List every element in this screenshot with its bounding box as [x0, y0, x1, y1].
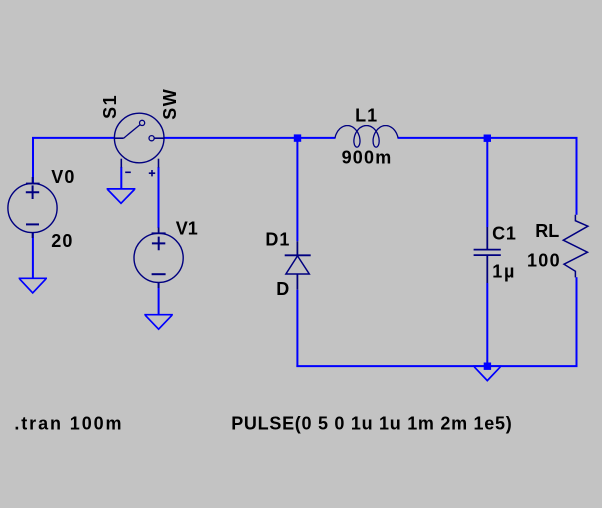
voltage source V1	[134, 228, 183, 289]
diode D1	[285, 241, 311, 289]
svg-text:1µ: 1µ	[492, 262, 516, 282]
wire diode branch vertical upper	[296, 137, 298, 241]
wire switch right to node A	[165, 137, 336, 139]
wire inductor right to top-right corner	[398, 137, 578, 139]
ground at bottom rail	[473, 366, 501, 381]
wire capacitor branch upper	[486, 137, 488, 227]
wire resistor RL bottom to bottom rail	[576, 277, 578, 367]
wire right side down to resistor RL	[576, 137, 578, 215]
svg-text:V1: V1	[176, 219, 198, 239]
svg-text:PULSE(0 5 0 1u 1u 1m 2m 1e5): PULSE(0 5 0 1u 1u 1m 2m 1e5)	[231, 413, 512, 433]
capacitor C1	[474, 227, 501, 283]
ground under V0	[19, 278, 47, 293]
junction bottom rail at ground	[484, 363, 491, 370]
wire switch plus stub down to V1	[158, 167, 160, 228]
wire top-left horizontal V0 to switch S1	[32, 137, 115, 139]
switch S1	[114, 113, 164, 176]
svg-text:D1: D1	[265, 230, 290, 250]
inductor L1	[335, 126, 398, 148]
svg-text:RL: RL	[535, 221, 559, 241]
svg-text:S1: S1	[100, 94, 120, 119]
wire V0 bottom to ground	[32, 232, 34, 278]
ground under V1	[144, 315, 173, 330]
svg-text:900m: 900m	[342, 148, 393, 168]
svg-text:C1: C1	[492, 224, 517, 244]
wire diode branch vertical lower	[296, 290, 298, 367]
wire switch minus stub to ground	[120, 167, 122, 189]
voltage source V0	[8, 177, 57, 238]
wire V0 top lead up to corner	[32, 138, 34, 184]
svg-text:100: 100	[527, 250, 561, 270]
junction node OUT (inductor/cap/load)	[484, 135, 491, 142]
wire bottom rail	[296, 365, 577, 367]
svg-text:L1: L1	[355, 105, 378, 125]
svg-text:V0: V0	[51, 167, 75, 187]
svg-text:D: D	[276, 279, 289, 299]
wire V1 bottom to ground	[158, 282, 160, 315]
wire capacitor branch lower	[486, 283, 488, 366]
svg-text:SW: SW	[160, 88, 180, 120]
resistor RL	[563, 215, 588, 278]
svg-text:.tran 100m: .tran 100m	[14, 414, 123, 434]
ground under switch S1	[107, 189, 136, 203]
svg-text:20: 20	[51, 231, 73, 251]
junction node A (diode/inductor)	[294, 134, 301, 141]
